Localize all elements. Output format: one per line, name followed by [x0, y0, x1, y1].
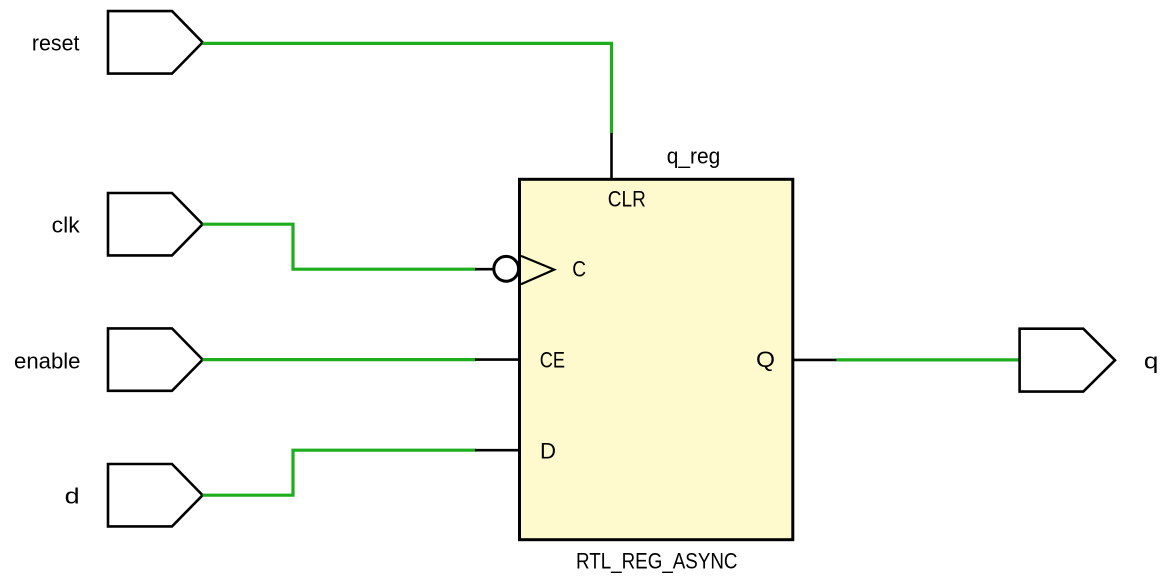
pin stub D — [475, 449, 521, 452]
svg-text:q_reg: q_reg — [667, 144, 721, 169]
input port d — [108, 464, 203, 526]
svg-text:C: C — [572, 257, 586, 282]
input port clk — [108, 193, 203, 255]
pin stub CLR — [610, 133, 613, 179]
clock triangle — [521, 256, 554, 284]
svg-text:reset: reset — [32, 31, 80, 56]
input port enable — [108, 328, 203, 390]
register q_reg RTL_REG_ASYNC — [520, 179, 793, 539]
wire net d — [203, 450, 476, 495]
svg-text:clk: clk — [52, 213, 81, 238]
svg-text:CLR: CLR — [608, 187, 646, 212]
svg-text:enable: enable — [14, 349, 81, 374]
clock bubble — [494, 256, 519, 281]
svg-text:q: q — [1144, 349, 1159, 374]
svg-text:D: D — [540, 439, 556, 464]
input port reset — [108, 11, 203, 74]
svg-text:RTL_REG_ASYNC: RTL_REG_ASYNC — [576, 548, 738, 573]
wire net enable — [203, 358, 476, 361]
pin stub Q — [792, 359, 837, 362]
wire net clk — [203, 224, 476, 269]
wire net reset — [203, 43, 612, 133]
pin stub CE — [475, 358, 521, 361]
svg-text:CE: CE — [540, 348, 565, 373]
pin stub C — [475, 268, 493, 271]
svg-text:Q: Q — [756, 347, 775, 372]
output port q — [1020, 329, 1115, 392]
svg-text:d: d — [65, 484, 80, 509]
wire net q — [837, 358, 1020, 361]
